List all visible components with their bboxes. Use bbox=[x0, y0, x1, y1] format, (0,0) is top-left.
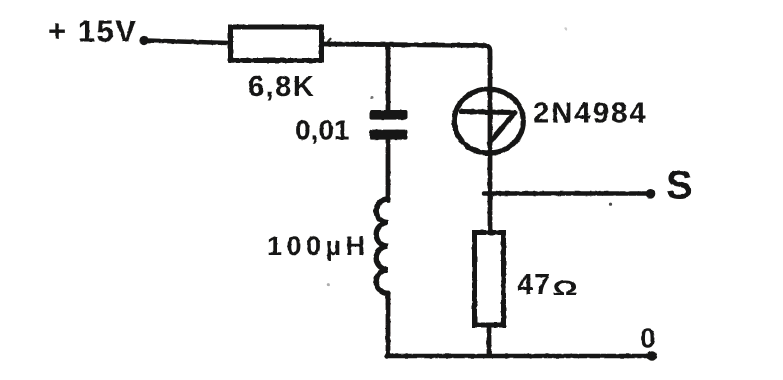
svg-text:0: 0 bbox=[640, 323, 656, 354]
svg-text:Ω: Ω bbox=[553, 276, 578, 300]
svg-text:S: S bbox=[666, 164, 693, 208]
svg-text:6,8K: 6,8K bbox=[248, 71, 315, 103]
svg-text:100µH: 100µH bbox=[267, 231, 370, 261]
svg-text:+ 15V: + 15V bbox=[48, 14, 137, 49]
svg-text:2N4984: 2N4984 bbox=[533, 98, 648, 130]
svg-text:0,01: 0,01 bbox=[295, 115, 350, 146]
svg-text:47: 47 bbox=[517, 269, 551, 301]
